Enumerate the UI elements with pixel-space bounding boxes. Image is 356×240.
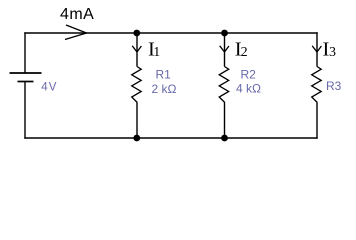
resistor R2 zigzag (219, 67, 229, 103)
wire: top rail from source to R3 (24, 32, 317, 34)
svg-text:4V: 4V (41, 81, 57, 93)
wire: R2 branch lower vertical (224, 103, 226, 139)
resistor R1 zigzag (132, 67, 142, 103)
svg-text:4mA: 4mA (60, 6, 94, 23)
current arrowhead I3 (312, 46, 321, 52)
wire: bottom rail (24, 137, 317, 139)
node: top junction of R2 branch (221, 30, 228, 37)
battery V1 top plate (long, +) (10, 72, 42, 74)
wire: R3 branch upper vertical (316, 32, 318, 66)
svg-text:R3: R3 (326, 79, 342, 93)
node: bottom junction of R2 branch (221, 135, 228, 142)
wire: left top vertical (source + terminal) (24, 32, 26, 73)
label I3 (323, 39, 337, 61)
svg-text:R1: R1 (156, 68, 172, 82)
current arrowhead I2 (220, 46, 229, 52)
label I1 (148, 39, 160, 61)
wire: R1 branch upper vertical (136, 33, 138, 67)
svg-text:R2: R2 (241, 68, 257, 82)
battery V1 bottom plate (short, -) (18, 81, 34, 83)
current arrowhead I1 (132, 46, 141, 52)
wire: R2 branch upper vertical (224, 33, 226, 67)
current arrow 4mA on top rail (65, 25, 87, 40)
resistor R3 zigzag (312, 67, 322, 103)
wire: left bottom vertical (source - terminal) (24, 82, 26, 139)
label I2 (235, 39, 248, 61)
svg-text:1: 1 (153, 45, 160, 60)
wire: R1 branch lower vertical (136, 103, 138, 139)
svg-text:4 kΩ: 4 kΩ (236, 82, 261, 96)
svg-text:2: 2 (241, 45, 248, 60)
node: bottom junction of R1 branch (133, 135, 140, 142)
svg-text:3: 3 (329, 45, 336, 60)
svg-text:2 kΩ: 2 kΩ (152, 82, 177, 96)
node: top junction of R1 branch (133, 30, 140, 37)
wire: R3 branch lower vertical (316, 103, 318, 139)
